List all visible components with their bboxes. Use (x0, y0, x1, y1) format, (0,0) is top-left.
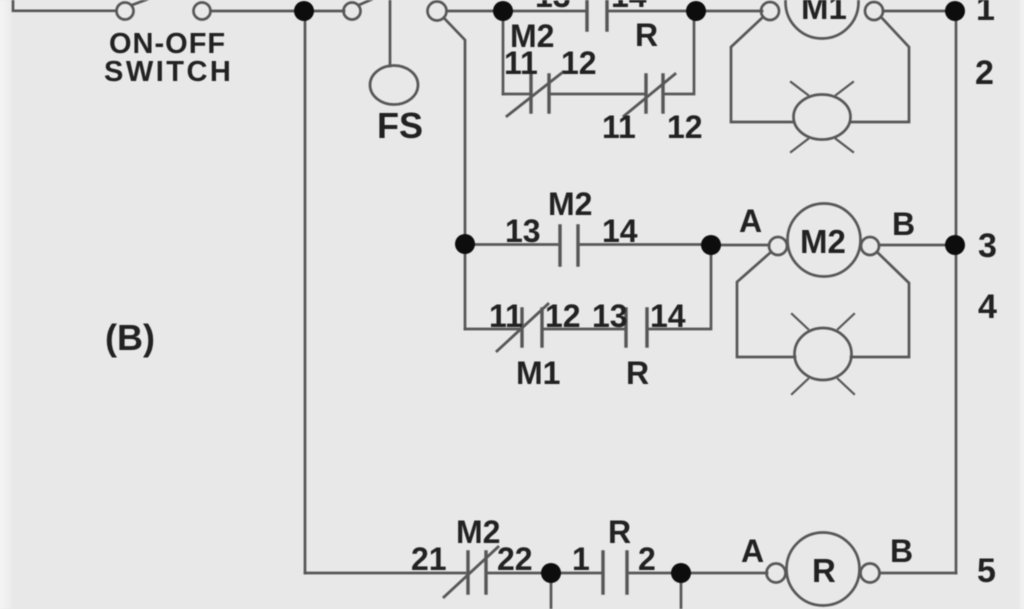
svg-text:13: 13 (535, 0, 571, 14)
svg-text:1: 1 (572, 541, 590, 577)
contact M2 21-22 NC slash (444, 547, 498, 597)
wire rung1 branch down left (502, 20, 505, 94)
svg-text:R: R (812, 552, 836, 589)
contact R 11-12 NC (646, 75, 663, 112)
wire node to coil R (691, 572, 767, 575)
contact M2 13-14 rung3 (560, 226, 578, 265)
svg-text:2: 2 (638, 541, 656, 577)
svg-text:FS: FS (377, 105, 423, 146)
svg-text:A: A (741, 533, 764, 569)
svg-text:22: 22 (497, 541, 533, 577)
wire lamp loop M2 right (851, 252, 909, 357)
wire rung1 node to coil M1 (706, 10, 762, 13)
wire from switch to left-rail node (211, 10, 297, 13)
on-off switch S1 right terminal (194, 3, 211, 20)
coil R right terminal (861, 564, 880, 583)
coil M2 left terminal (769, 237, 787, 255)
svg-text:11: 11 (602, 109, 636, 145)
contact M2 21-22 NC (468, 552, 486, 593)
on-off switch S1 left terminal (117, 3, 134, 20)
coil M1 body (786, 0, 859, 39)
coil R body (787, 533, 860, 606)
svg-text:(B): (B) (105, 317, 155, 358)
wire feed corner into on-off switch (13, 0, 116, 11)
svg-text:R: R (608, 514, 631, 550)
svg-text:B: B (890, 533, 913, 569)
svg-text:11: 11 (504, 45, 538, 81)
wire rung3 branch down left (464, 254, 467, 329)
wire rung1 branch to first NC contact (503, 93, 529, 96)
svg-text:21: 21 (411, 541, 447, 577)
pilot lamp M1 (794, 95, 851, 140)
svg-text:R: R (626, 355, 649, 391)
svg-text:M2: M2 (800, 223, 846, 260)
wire bottom rung from left rail (305, 572, 465, 575)
svg-text:14: 14 (611, 0, 647, 14)
wire rung3 right segment (578, 243, 702, 246)
svg-text:12: 12 (545, 298, 581, 334)
node junction rung1 right (686, 1, 706, 21)
svg-text:4: 4 (978, 288, 997, 326)
float switch FS blade (359, 0, 384, 5)
wire stub down from node 2 (680, 583, 683, 609)
wire drop from FS to rung 3 (444, 18, 465, 236)
coil M2 body (788, 204, 861, 277)
contact M2 11-12 NC (531, 75, 549, 112)
wire between contacts rung3 branch (542, 328, 626, 331)
node junction rung3 left (455, 234, 475, 254)
svg-text:14: 14 (602, 213, 638, 249)
svg-text:M2: M2 (548, 186, 592, 222)
pilot lamp M2 (795, 328, 852, 380)
node junction left rail (294, 1, 314, 21)
svg-text:3: 3 (978, 227, 997, 265)
wire lamp loop M1 right (851, 17, 909, 122)
contact R 13-14 (626, 309, 647, 346)
wire lamp loop M2 left (737, 252, 795, 357)
svg-text:SWITCH: SWITCH (104, 56, 233, 88)
svg-text:14: 14 (650, 298, 686, 334)
node junction right rail line 3 (945, 235, 965, 255)
wire lamp loop M1 left (731, 17, 794, 122)
svg-text:A: A (739, 203, 762, 239)
float switch FS left terminal (344, 3, 361, 20)
float switch FS float ellipse (370, 66, 418, 105)
contact M1 11-12 NC (522, 309, 542, 346)
svg-text:R: R (635, 17, 658, 53)
wire right rail vertical (955, 11, 958, 573)
node junction bottom rung A (541, 563, 561, 583)
wire stub down from node 1 (550, 583, 553, 609)
wire node to contact R 1-2 (561, 572, 601, 575)
contact M2 13-14 rung1 (587, 0, 607, 30)
on-off switch S1 blade (132, 0, 159, 5)
float switch FS right terminal (428, 2, 447, 21)
contact R 1-2 (603, 552, 627, 593)
wire FS to rung1 node (447, 10, 494, 13)
wire rung1 left segment (512, 10, 587, 13)
svg-text:13: 13 (592, 298, 628, 334)
float switch FS hanger wire (389, 0, 392, 66)
wire coil R to right rail (880, 572, 957, 575)
node junction bottom rung B (671, 563, 691, 583)
coil M1 left terminal (761, 2, 779, 20)
svg-text:11: 11 (489, 298, 523, 334)
svg-text:M2: M2 (456, 514, 500, 550)
svg-text:2: 2 (975, 54, 994, 92)
wire rung3 branch right up to node (647, 255, 711, 329)
wire rung3 node to coil M2 (720, 244, 769, 247)
wire between NC contacts (549, 93, 645, 96)
wire coil M1 to right rail (883, 10, 946, 13)
wire node to float switch (314, 10, 344, 13)
coil M1 right terminal (865, 2, 883, 20)
wire rung3 left segment (465, 243, 557, 246)
wire rung1 right segment (607, 10, 687, 13)
wire left rail vertical (304, 11, 307, 573)
node junction rung3 right (701, 235, 721, 255)
coil M2 right terminal (861, 237, 879, 255)
contact M2 11-12 NC slash (507, 72, 563, 116)
svg-text:B: B (892, 206, 915, 242)
svg-text:M1: M1 (801, 0, 847, 26)
node junction right rail line 1 (945, 1, 965, 21)
svg-text:5: 5 (977, 552, 996, 590)
contact M1 11-12 NC slash (497, 304, 548, 351)
svg-text:M1: M1 (516, 355, 560, 391)
wire rung3 branch to NC contact (465, 328, 520, 331)
node junction rung1 left (493, 1, 513, 21)
svg-text:12: 12 (561, 45, 597, 81)
pilot lamp M1 rays (791, 82, 853, 152)
contact R 11-12 NC slash (624, 74, 675, 116)
svg-text:13: 13 (505, 213, 541, 249)
wire rung1 branch right up to node (663, 21, 694, 94)
coil R left terminal (767, 564, 786, 583)
wire to node (486, 572, 541, 575)
wire contact to node 2 (627, 572, 671, 575)
wire coil M2 to right rail (879, 244, 946, 247)
svg-text:1: 1 (976, 0, 995, 28)
pilot lamp M2 rays (792, 314, 854, 394)
svg-text:12: 12 (667, 109, 703, 145)
